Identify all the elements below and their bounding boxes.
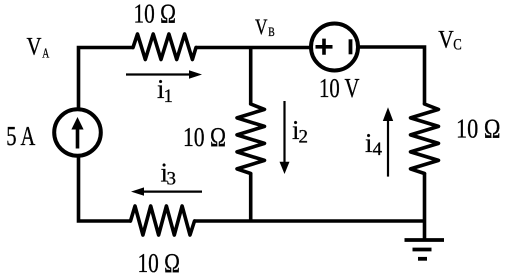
current arrow i3 (left)	[142, 191, 202, 193]
svg-text:1: 1	[164, 86, 174, 107]
svg-text:10 Ω: 10 Ω	[134, 0, 177, 29]
voltage source plus sign	[316, 39, 333, 55]
resistor R4 (bottom, 10 ohm)	[131, 206, 195, 235]
voltage source minus bar	[349, 39, 353, 54]
wire right branch bottom	[423, 174, 427, 241]
wire voltage source to top-right corner	[358, 47, 425, 104]
svg-text:i: i	[365, 128, 373, 158]
current arrow i1	[126, 73, 191, 75]
svg-text:10 Ω: 10 Ω	[138, 248, 181, 273]
svg-text:V: V	[438, 27, 454, 54]
svg-text:A: A	[42, 47, 50, 62]
svg-text:3: 3	[167, 169, 177, 190]
voltage source U1 circle	[311, 24, 358, 71]
wire top middle R1 to voltage source	[196, 46, 311, 50]
wire top-left horizontal V_A to R1	[79, 48, 134, 110]
wire V_B junction vertical drop	[249, 48, 253, 105]
svg-text:4: 4	[373, 139, 383, 160]
svg-text:10 Ω: 10 Ω	[456, 114, 501, 144]
svg-text:C: C	[453, 37, 462, 54]
current source I1 circle	[54, 109, 101, 156]
svg-text:5 A: 5 A	[6, 121, 35, 151]
svg-text:10 Ω: 10 Ω	[183, 122, 226, 152]
svg-text:B: B	[268, 25, 275, 39]
svg-text:2: 2	[299, 127, 309, 148]
current arrow i4 (up)	[387, 120, 389, 177]
svg-text:V: V	[255, 14, 268, 39]
wire middle branch bottom	[249, 174, 253, 222]
current source arrow (up)	[76, 127, 80, 149]
ground bar 3	[418, 257, 427, 261]
current arrow i2 (down)	[283, 101, 285, 163]
wire left branch bottom (current source to bottom wire)	[79, 156, 131, 221]
resistor R1 (top, 10 ohm)	[133, 34, 196, 60]
wire bottom right segment	[195, 219, 425, 223]
svg-text:10 V: 10 V	[319, 73, 360, 103]
resistor R2 (middle, 10 ohm) vertical	[237, 104, 265, 174]
ground bar 2	[413, 248, 432, 252]
ground bar 1	[405, 238, 445, 242]
resistor R3 (right, 10 ohm) vertical	[411, 104, 439, 174]
svg-text:V: V	[27, 34, 42, 61]
